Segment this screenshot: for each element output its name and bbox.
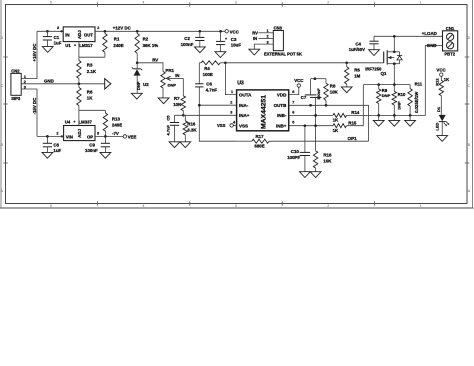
ground for C8 [42,152,53,158]
svg-text:R6: R6 [354,67,360,72]
svg-text:2.1K: 2.1K [87,69,97,74]
node dot C2 [198,30,201,33]
net label GND CN1 [427,43,437,48]
node dots on OUTB wire [309,104,327,107]
svg-text:1: 1 [420,204,422,208]
svg-text:EXTERNAL POT 5K: EXTERNAL POT 5K [264,52,302,57]
sheet edge left [0,0,2,208]
svg-text:1: 1 [420,0,422,4]
node dot C9 [104,135,107,138]
svg-text:C5: C5 [165,115,170,121]
svg-text:R12: R12 [435,78,440,86]
node dots sense bottom [377,114,411,117]
svg-text:VDD: VDD [277,93,287,98]
off-page circle VCC top [225,29,240,34]
node dot R1 top [104,30,107,33]
svg-text:U3: U3 [237,81,244,87]
svg-text:R16: R16 [187,121,196,126]
svg-text:CN1: CN1 [446,26,455,31]
svg-text:R3: R3 [87,63,93,68]
svg-text:INA-: INA- [239,103,249,108]
sheet edge bottom [0,207,474,209]
svg-text:C10: C10 [291,149,300,154]
svg-text:4.7nF: 4.7nF [165,124,170,135]
resistor R6 [345,63,361,87]
svg-text:0.025E/1W: 0.025E/1W [414,91,419,113]
resistor R18 [313,126,332,172]
wire +LOAD [374,35,443,37]
wire -15V to U4 VIN [37,135,64,137]
net label -15V DC [32,97,37,115]
svg-text:10K: 10K [173,102,182,107]
resistor R11 [408,81,423,115]
connector CN3 [267,26,284,51]
vertical feedback INA- net [199,63,236,141]
mosfet Q1 IRF7250 [365,50,402,76]
svg-text:INA+: INA+ [239,113,250,118]
node dots INB nets [304,114,317,127]
resistor R8b 10K [324,79,339,106]
op-amp U3 MAX44251 [237,81,289,131]
ground for CN3 [249,49,260,55]
svg-text:100nF: 100nF [85,148,98,153]
capacitor C9 [85,136,110,153]
svg-text:GND: GND [427,43,437,48]
wire OUTB loop [289,105,369,141]
node dots Q1 [393,50,396,65]
svg-text:MAX44251: MAX44251 [261,95,268,129]
frame zone ticks and labels [1,0,471,208]
svg-text:LM317: LM317 [79,43,93,48]
svg-text:R4: R4 [204,66,210,71]
svg-text:OUTB: OUTB [274,103,287,108]
svg-text:DNP: DNP [382,93,391,98]
wire gate drive [225,62,383,64]
svg-text:R14: R14 [351,110,360,115]
svg-text:3.3K: 3.3K [187,128,197,133]
svg-text:R11: R11 [415,81,423,86]
svg-text:Q1: Q1 [381,71,387,76]
off-page arrow GND [105,79,111,89]
zener U2 [132,63,149,94]
connector CN1 PBT2 [443,26,458,57]
svg-text:+LOAD: +LOAD [422,31,437,36]
svg-text:6: 6 [292,111,294,115]
wire +12V rail [95,30,225,32]
border frame [6,5,468,204]
svg-text:R7: R7 [174,96,180,101]
node dot GND at R3 [78,82,81,85]
ground for R6 [341,87,352,93]
svg-text:5: 5 [50,0,52,4]
capacitor C7 100nF [301,79,322,106]
wire C7 R8 top [311,78,326,80]
regulator U1 LM317 [63,27,95,48]
ground for D1 [437,136,448,142]
ground for R9 [373,115,384,126]
svg-text:U1: U1 [65,43,71,48]
svg-text:C7: C7 [301,95,307,100]
resistor R3 [77,57,97,84]
wire RV to PR1 [137,63,163,72]
wire R1 bottom to U1 ADJ [79,56,105,58]
ground for C10 [300,172,311,178]
svg-text:100PF: 100PF [287,155,300,160]
net label +LOAD [422,31,437,36]
svg-text:OUTA: OUTA [239,93,252,98]
node dot RV [136,61,139,64]
node dot +15V at C1 [46,30,49,33]
wire -7V output [95,135,123,137]
svg-text:100nF: 100nF [181,42,194,47]
net label -7V [112,131,119,136]
svg-text:C2: C2 [184,36,190,41]
resistor R7 [173,78,185,115]
svg-text:ADJ: ADJ [77,30,82,39]
off-page circle VEE [123,134,136,139]
wire CN1 GND return [410,45,442,115]
svg-text:OP: OP [87,135,93,140]
resistor R15 [333,85,364,133]
resistor R9 [377,85,391,116]
svg-text:36K 1%: 36K 1% [143,43,159,48]
svg-text:VSS: VSS [217,123,226,128]
svg-text:5: 5 [292,121,294,125]
svg-text:R17: R17 [256,134,265,139]
wire VDD to VCC [289,87,299,94]
svg-text:-7V: -7V [112,131,119,136]
svg-text:U2: U2 [143,82,149,87]
svg-text:R18: R18 [323,153,332,158]
svg-text:1uF: 1uF [53,148,61,153]
svg-text:10K: 10K [330,90,339,95]
svg-text:RV: RV [252,30,258,35]
svg-text:-15V DC: -15V DC [32,97,37,115]
ground for C5 [169,142,180,148]
svg-text:R10: R10 [398,92,406,97]
pin label 3 U1 IN [57,26,63,32]
svg-text:IN: IN [175,73,179,78]
node dot R2 top [136,30,139,33]
connector CN2 [11,69,26,101]
svg-text:C6: C6 [206,81,212,86]
ground for PR1 [158,88,169,104]
ground for C1 [42,47,53,53]
pin numbers U3 left [230,90,236,125]
net label GND [44,79,54,84]
resistor R2 [135,31,158,63]
wire GND from CN2 pin2 [21,83,105,85]
svg-text:4: 4 [142,204,144,208]
svg-text:3: 3 [230,111,232,115]
node dot OUTA [224,61,227,64]
svg-text:CN2: CN2 [11,69,20,74]
svg-text:R8: R8 [330,84,336,89]
svg-text:+: + [225,37,227,41]
svg-text:2: 2 [56,131,58,135]
svg-text:INB-: INB- [277,113,287,118]
ground for U2 [131,93,142,99]
wire CN3 pin1 RV [252,30,273,35]
svg-text:1M: 1M [354,73,360,78]
svg-text:C1: C1 [54,35,60,40]
sheet edge right [472,0,474,208]
svg-text:1K: 1K [333,128,339,133]
svg-text:DNP: DNP [168,83,177,88]
wire U1 ADJ pin [78,42,80,58]
svg-text:10K: 10K [323,159,332,164]
svg-text:VCC: VCC [230,29,240,34]
svg-text:100nF: 100nF [316,88,321,100]
svg-text:ADJ: ADJ [77,128,82,137]
svg-text:VCC: VCC [436,68,446,73]
regulator U4 LM337 [64,120,95,141]
svg-text:VCC: VCC [294,78,304,83]
svg-text:LED: LED [435,122,440,130]
svg-text:3: 3 [235,204,237,208]
resistor R13 [103,110,122,136]
svg-text:1K: 1K [87,96,93,101]
svg-text:4: 4 [142,0,144,4]
svg-text:U4: U4 [65,120,71,125]
net label RV [152,57,158,62]
ground for R16 [180,142,191,148]
svg-text:7: 7 [292,101,294,105]
svg-text:3: 3 [97,131,99,135]
capacitor C5 [165,115,179,142]
wire OUTA pin1 [225,63,236,95]
svg-text:3: 3 [57,26,59,30]
net label IN [175,73,179,78]
svg-text:+: + [74,43,76,47]
svg-text:D1: D1 [436,106,441,112]
svg-text:RV: RV [152,57,158,62]
wire sense top [363,84,410,86]
wire INB+ net [289,125,333,127]
svg-text:1: 1 [231,90,233,94]
wire CN3 pin3 gnd [254,44,273,49]
net label +12V DC [113,26,132,31]
off-page circle VCC U3 [294,78,304,87]
svg-text:INB+: INB+ [276,123,287,128]
svg-text:DNP: DNP [136,81,141,90]
wire U3 pin2 INA- [199,104,236,106]
svg-text:2: 2 [327,204,329,208]
pin label 2 U4 VIN [56,131,63,137]
svg-text:1K: 1K [333,118,339,123]
svg-text:OP1: OP1 [348,136,358,141]
wire CN2 pin1 to +15V rail [21,31,37,78]
pin label 2 U1 OUT [97,26,99,30]
node dot C8 [46,135,49,138]
ground for C3 [215,52,226,58]
node dot INA+ net [182,114,185,117]
svg-text:R13: R13 [112,116,121,121]
svg-text:LM337: LM337 [79,120,93,125]
svg-text:5: 5 [50,204,52,208]
svg-text:100E: 100E [203,72,213,77]
svg-text:10uF: 10uF [231,42,242,47]
potentiometer PR1 [161,68,184,88]
svg-text:VSS: VSS [239,123,248,128]
svg-text:VEE: VEE [128,134,137,139]
off-page circle VSS [217,123,237,128]
svg-text:1uF/50V: 1uF/50V [349,47,365,52]
capacitor C10 [287,126,310,172]
wire CN3 pin2 IN [253,36,273,41]
capacitor C8 [43,136,62,153]
resistor R16 [183,115,197,142]
svg-text:+15V DC: +15V DC [32,43,37,62]
wire R17 segment [237,140,252,142]
svg-text:GND: GND [44,79,54,84]
resistor R12 [435,76,450,115]
capacitor C4 [349,36,379,52]
capacitor C6 [195,81,217,92]
wire Q1 drain [393,36,395,52]
svg-text:240E: 240E [112,123,122,128]
label OP1 [348,136,358,141]
ground for R10 [389,115,400,126]
pin label 3 U4 OP [97,131,99,135]
svg-text:R1: R1 [114,37,120,42]
svg-text:C9: C9 [89,143,95,148]
svg-text:IRF7250: IRF7250 [365,66,382,71]
wire +15V to U1 IN [37,30,63,32]
node dot drain [393,35,396,38]
svg-text:8: 8 [292,90,294,94]
svg-text:OUT: OUT [84,32,93,37]
wire INB- net [289,114,333,116]
wire INA+ to U3 pin3 [175,114,237,116]
svg-text:DNP: DNP [396,101,401,110]
node dot C3 [219,30,222,33]
svg-text:240E: 240E [113,43,123,48]
svg-text:1K: 1K [444,77,449,82]
ground for R18 [310,172,321,178]
svg-text:+12V DC: +12V DC [113,26,132,31]
svg-text:VIN: VIN [66,135,73,140]
svg-text:PR1: PR1 [165,68,174,73]
svg-text:IN: IN [65,32,69,37]
ground for C9 [100,152,111,158]
svg-text:2: 2 [97,26,99,30]
svg-text:C8: C8 [53,143,59,148]
ground for R11 [405,115,416,126]
svg-text:R8: R8 [87,89,93,94]
node dot C7 top [314,77,317,80]
svg-text:SIP3: SIP3 [11,96,21,101]
wire Q1 source [393,64,395,85]
wire CN2 pin3 to -15V rail [21,89,37,136]
svg-text:CN3: CN3 [274,26,283,31]
net label +15V DC [32,43,37,62]
ground for C2 [195,47,206,53]
svg-text:+: + [73,120,75,124]
resistor R1 [103,31,124,57]
svg-text:3: 3 [235,0,237,4]
svg-text:2: 2 [230,101,232,105]
node dot INA- [198,104,201,107]
svg-text:1uF: 1uF [54,41,62,46]
led D1 [435,106,450,135]
svg-text:R15: R15 [348,120,357,125]
svg-text:680E: 680E [254,143,264,148]
off-page circle VCC led [436,68,446,77]
svg-text:4.7nF: 4.7nF [206,87,218,92]
svg-text:PBT2: PBT2 [444,52,455,57]
resistor R10 [392,85,406,116]
pin numbers U3 right [292,90,294,125]
node dot R6 [345,61,348,64]
label EXTERNAL POT 5K [264,52,302,57]
resistor R4 [199,61,225,77]
svg-text:2: 2 [327,0,329,4]
resistor R17 [252,134,369,148]
capacitor C2 [181,31,205,47]
ground for C4 [369,50,380,56]
node dots sense top [377,83,395,86]
capacitor C3 [216,31,241,51]
svg-text:C4: C4 [355,41,361,46]
vertical x315 link [315,105,317,125]
capacitor C1 [43,31,62,46]
resistor R8 [77,84,94,111]
wire LM337 ADJ node [79,110,106,125]
svg-text:IN: IN [253,36,257,41]
svg-text:R2: R2 [143,37,149,42]
resistor R14 [333,110,411,123]
